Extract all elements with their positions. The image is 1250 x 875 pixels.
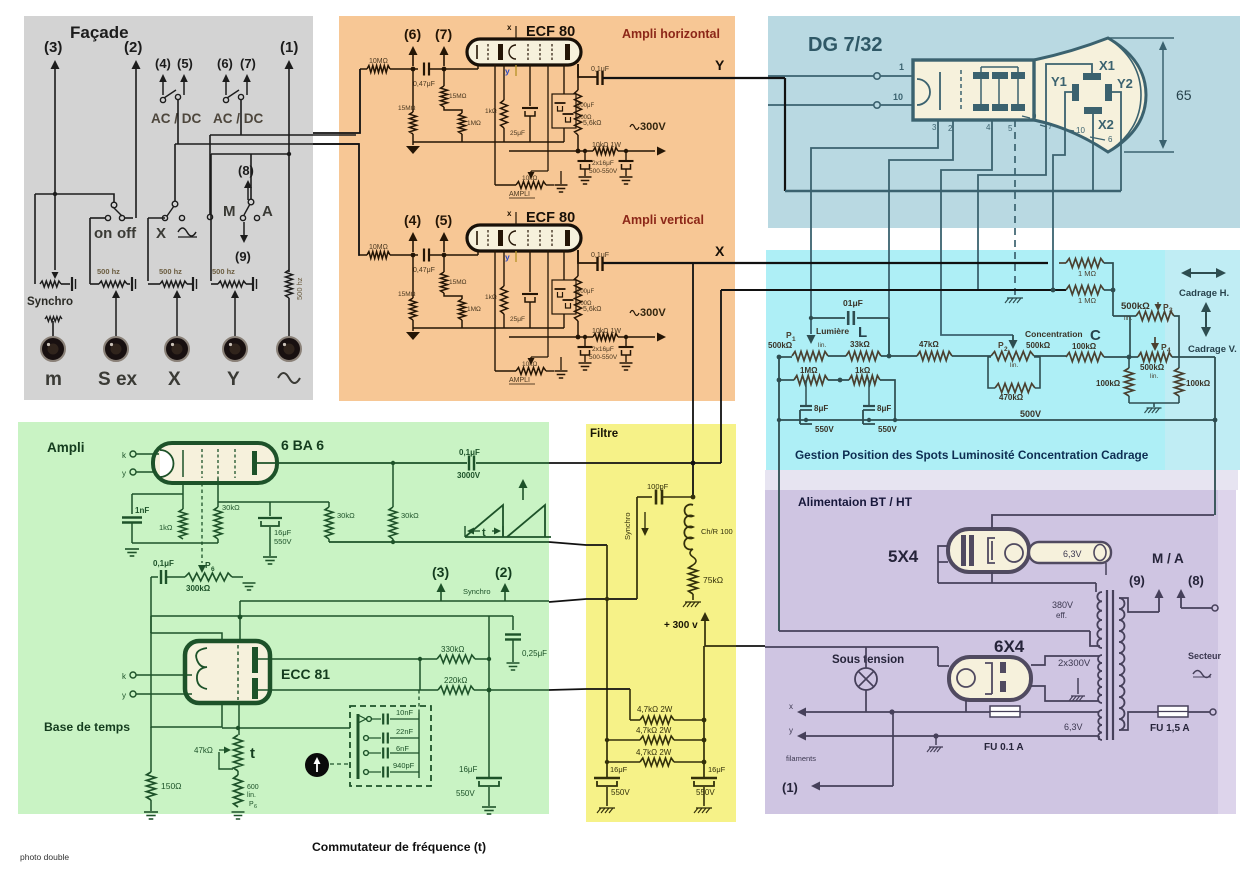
svg-text:Y: Y <box>227 369 240 390</box>
svg-text:AMPLI: AMPLI <box>509 191 530 198</box>
svg-text:(1): (1) <box>782 780 798 795</box>
wire on/off pivot riser and bar <box>35 194 114 203</box>
arrow out a Ampli vertical <box>412 241 414 252</box>
wire AC/DC 1 to X input line <box>177 100 179 144</box>
wire pin3 jog <box>811 120 938 334</box>
wire chain left end <box>780 356 792 358</box>
junction HT corner <box>1213 514 1215 516</box>
resistor 4,7k no.2 <box>607 739 640 741</box>
svg-text:M: M <box>223 203 236 220</box>
alimentation pale right strip <box>1218 490 1236 814</box>
svg-text:6X4: 6X4 <box>994 637 1025 656</box>
resistor 15M no.2 Ampli horizontal <box>443 69 445 86</box>
svg-text:Filtre: Filtre <box>590 428 618 440</box>
wire ECC81 grid riser <box>239 601 241 641</box>
wire bus synchro <box>240 600 549 602</box>
wiper arrow ampli Ampli horizontal <box>530 171 532 172</box>
svg-text:Concentration: Concentration <box>1025 329 1083 339</box>
svg-text:Secteur: Secteur <box>1188 651 1222 661</box>
wire coil to resistor <box>690 549 696 565</box>
lamp sous tension <box>855 668 877 690</box>
heater capsule 6,3V top <box>1029 542 1111 563</box>
resistor 15M no.1 Ampli vertical <box>412 255 414 298</box>
wire cathode rail left <box>132 542 218 544</box>
wire Y riser <box>784 78 786 191</box>
junction P4 left <box>1127 355 1132 360</box>
wire green synchro into filtre <box>549 599 637 602</box>
gestion panel pale right strip <box>1165 250 1240 470</box>
svg-text:100kΩ: 100kΩ <box>1096 379 1121 388</box>
potentiometer 10k AMPLI Ampli vertical <box>516 368 546 375</box>
bus lower Ampli vertical <box>413 327 564 329</box>
winding 2x300V <box>1098 655 1102 703</box>
resistor 30k no.1 <box>214 507 222 539</box>
svg-text:75kΩ: 75kΩ <box>703 575 723 585</box>
wiper arrow P3 <box>1157 302 1159 304</box>
box wiper loop <box>219 752 233 769</box>
lavender gap strip above alimentation <box>765 470 1238 490</box>
capacitor 16uF b Ampli horizontal <box>625 151 627 160</box>
wire HT to 5X4 anode <box>992 515 1214 529</box>
svg-text:1: 1 <box>792 336 796 343</box>
wire node 3 junction on bar <box>53 192 57 196</box>
ground 75k <box>685 601 701 603</box>
svg-text:m: m <box>45 369 62 390</box>
junction 6 Ampli horizontal <box>411 67 416 72</box>
svg-text:0,47μF: 0,47μF <box>413 81 435 88</box>
wiper arrow concentration <box>1012 335 1014 340</box>
svg-text:Y: Y <box>715 57 725 73</box>
wire Y bus <box>785 190 1121 192</box>
svg-text:550V: 550V <box>815 425 834 434</box>
socket S ex <box>104 337 128 361</box>
tube 6X4 envelope <box>949 657 1031 700</box>
junction y ground <box>933 733 938 738</box>
ground wiper line Ampli vertical <box>560 357 562 370</box>
wiper arrow P4 <box>1154 337 1156 343</box>
tube ECC81 envelope <box>185 641 270 703</box>
alimentation panel background <box>765 490 1218 814</box>
capacitor 1nF <box>131 494 133 514</box>
wire Y output <box>578 64 597 77</box>
switch X/sine lever <box>167 206 174 216</box>
svg-text:100pF: 100pF <box>647 482 669 491</box>
wire line y290 <box>721 289 1066 291</box>
wire wiper feedback Ampli horizontal <box>531 170 548 172</box>
resistor 330k <box>437 655 475 663</box>
switch on/off lever <box>113 207 122 216</box>
svg-text:L: L <box>858 324 867 341</box>
wire pin5 dashed drop <box>1014 120 1016 296</box>
wire X2 lead <box>1092 114 1094 191</box>
svg-text:500kΩ: 500kΩ <box>1121 301 1150 312</box>
svg-text:on: on <box>94 225 112 242</box>
svg-text:4,7kΩ 2W: 4,7kΩ 2W <box>636 726 672 735</box>
deflection plate Y1 <box>1072 84 1079 101</box>
svg-text:0,1μF: 0,1μF <box>153 559 174 568</box>
box 200uF 200ohm Ampli vertical <box>552 280 576 314</box>
box 200uF 200ohm Ampli horizontal <box>552 94 576 128</box>
capacitor 100pF <box>637 496 652 498</box>
svg-text:Cadrage H.: Cadrage H. <box>1179 288 1229 299</box>
tube ECF 80 envelope Ampli vertical <box>467 225 581 251</box>
wire wiper feedback Ampli vertical <box>531 356 548 358</box>
wire screen rail <box>218 501 329 503</box>
capacitor 8uF no.2 <box>868 380 870 406</box>
wire ECC81 grid tail <box>238 703 240 735</box>
wire 100k to P4 <box>1104 356 1138 358</box>
svg-text:(4): (4) <box>155 56 171 71</box>
svg-text:330kΩ: 330kΩ <box>441 645 464 654</box>
svg-text:4: 4 <box>986 123 991 132</box>
svg-text:(2): (2) <box>495 564 512 580</box>
transformer core <box>1106 590 1108 740</box>
tube 6BA6 electrodes <box>160 450 174 477</box>
svg-text:500 hz: 500 hz <box>97 267 120 276</box>
arrow (8) purple <box>1180 598 1182 608</box>
capacitor 0,1uF output Ampli horizontal <box>596 71 598 85</box>
potentiometer X <box>148 283 160 285</box>
wire lamp bottom <box>865 690 867 712</box>
ground cap right <box>696 807 712 809</box>
tick pin 9 <box>1022 116 1030 118</box>
switch X/sine pivot <box>172 201 178 207</box>
junction 5,6k bus Ampli vertical <box>576 335 581 340</box>
svg-text:9: 9 <box>1032 112 1037 121</box>
capacitor 0,1uF output Ampli vertical <box>596 257 598 271</box>
arrow (2) synchro <box>504 592 506 601</box>
arrow output 2 <box>132 60 141 69</box>
svg-text:2: 2 <box>1004 346 1008 353</box>
sine label socket <box>278 373 300 383</box>
svg-text:300kΩ: 300kΩ <box>186 584 211 593</box>
arrow contact 4 <box>162 82 164 95</box>
arrow +300v <box>704 621 706 632</box>
resistor 5,6k Ampli vertical <box>577 250 579 276</box>
sawtooth waveform <box>465 505 545 537</box>
arrow cadrage H <box>1191 272 1205 274</box>
arrow synchro down <box>644 512 646 528</box>
tube ECF 80 envelope Ampli horizontal <box>467 39 581 65</box>
svg-text:(7): (7) <box>240 56 256 71</box>
ground P4 legs <box>1147 407 1162 409</box>
svg-text:500-550V: 500-550V <box>589 354 618 361</box>
junction commutateur line <box>236 726 240 730</box>
wiper arrow S ex <box>115 298 117 336</box>
svg-text:y: y <box>505 66 510 76</box>
svg-text:DG 7/32: DG 7/32 <box>808 34 882 56</box>
arrow (1) <box>811 782 820 791</box>
bus HT Ampli vertical <box>509 336 593 338</box>
potentiometer 600 lin <box>234 775 243 807</box>
deflection plate X2 <box>1084 107 1102 114</box>
wire pin2 jog <box>889 120 953 355</box>
svg-text:600: 600 <box>247 784 259 791</box>
wire pin to ampli pot Ampli vertical <box>494 250 496 371</box>
CRT cathode <box>917 79 930 105</box>
svg-text:10: 10 <box>893 92 903 102</box>
svg-text:(8): (8) <box>1188 573 1204 588</box>
winding primary <box>1119 598 1125 730</box>
sine secteur <box>1193 671 1211 678</box>
junction X sawtooth <box>691 461 696 466</box>
svg-text:(5): (5) <box>435 212 452 228</box>
resistor 100k left leg <box>1128 357 1130 368</box>
wire Y1 lead <box>1053 92 1072 290</box>
svg-text:500-550V: 500-550V <box>589 168 618 175</box>
svg-text:22nF: 22nF <box>396 727 414 736</box>
svg-text:940pF: 940pF <box>393 761 415 770</box>
svg-text:x: x <box>789 702 793 711</box>
svg-text:t: t <box>250 745 255 762</box>
capacitor 25uF Ampli horizontal <box>529 64 531 106</box>
tube ECF 80 electrodes Ampli vertical <box>476 231 478 245</box>
wire (8) to terminal <box>1181 607 1212 609</box>
capacitor 16uF filtre right <box>691 777 717 779</box>
potentiometer P1 500k <box>792 352 828 361</box>
wire step down to chain <box>629 689 631 720</box>
switch M/A pivot <box>248 199 254 205</box>
wire plate b <box>258 689 438 691</box>
capacitor 16uF 550V btm <box>476 777 502 779</box>
svg-text:470kΩ: 470kΩ <box>999 393 1024 402</box>
wire left bar to synchro pot <box>34 194 36 284</box>
ground 150 <box>144 811 158 813</box>
svg-text:1kΩ: 1kΩ <box>159 523 173 532</box>
junction cap b Ampli horizontal <box>624 149 628 153</box>
resistor 1M no.2 <box>1066 286 1104 295</box>
CRT grid bar <box>939 72 941 110</box>
sine glyph throw <box>178 228 196 236</box>
svg-text:25μF: 25μF <box>510 316 525 323</box>
junction cap b Ampli vertical <box>624 335 628 339</box>
ground input Ampli horizontal <box>406 146 420 154</box>
svg-text:16μF: 16μF <box>610 765 628 774</box>
resistor 30k no.3 <box>392 463 394 507</box>
svg-text:(9): (9) <box>1129 573 1145 588</box>
junction chain3 <box>702 760 707 765</box>
svg-text:AMPLI: AMPLI <box>509 377 530 384</box>
svg-text:2x300V: 2x300V <box>1058 658 1091 669</box>
junction 500V left <box>777 418 781 422</box>
svg-text:S ex: S ex <box>98 369 138 390</box>
svg-text:AC / DC: AC / DC <box>213 111 264 126</box>
svg-text:10: 10 <box>1076 126 1085 135</box>
svg-text:lin.: lin. <box>818 342 827 349</box>
switch on/off contacts <box>105 215 110 220</box>
CRT grid dashed <box>960 70 962 112</box>
svg-text:Ampli vertical: Ampli vertical <box>622 213 704 227</box>
wire screen pin drop <box>217 478 219 507</box>
svg-text:FU 0.1 A: FU 0.1 A <box>984 742 1024 753</box>
switch AC/DC no.1 contacts <box>160 97 165 102</box>
svg-text:Synchro: Synchro <box>463 587 491 596</box>
arrow HT feed Ampli horizontal <box>618 150 655 152</box>
ground wiper line Ampli horizontal <box>560 171 562 184</box>
tube 6BA6 envelope <box>153 443 277 483</box>
arrow contact 7 <box>246 82 248 95</box>
svg-text:y: y <box>122 691 126 700</box>
tube 6X4 electrodes <box>957 669 975 687</box>
svg-text:550V: 550V <box>878 425 897 434</box>
wire x line <box>803 711 990 713</box>
wire left HV loop <box>779 630 1090 632</box>
svg-text:47kΩ: 47kΩ <box>194 746 213 755</box>
wire pin to ampli pot Ampli horizontal <box>494 64 496 185</box>
wire left vertical to purple <box>778 357 780 631</box>
svg-text:500kΩ: 500kΩ <box>1026 341 1051 350</box>
svg-text:1kΩ: 1kΩ <box>855 366 871 375</box>
svg-text:Ch/R 100: Ch/R 100 <box>701 527 733 536</box>
wire X-switch to X pot <box>148 217 165 219</box>
wire 1k right drop <box>880 380 895 420</box>
svg-text:5X4: 5X4 <box>888 547 919 566</box>
ground 0,25uF <box>507 662 520 664</box>
dimension bottom line <box>1124 151 1174 153</box>
wire 330k 220k tie <box>419 659 421 690</box>
wire Y pot riser <box>210 154 212 281</box>
wire pin to resistor 1k Ampli vertical <box>503 250 505 286</box>
junction 30k3 plate <box>391 461 395 465</box>
fuse FU 1,5A <box>1158 706 1188 717</box>
capacitor 940pF <box>382 767 384 778</box>
arrow out b Ampli horizontal <box>443 55 445 66</box>
wire cap rail right drop <box>888 318 890 355</box>
gestion spots panel background <box>766 250 1240 470</box>
svg-text:10MΩ: 10MΩ <box>369 58 388 65</box>
wire fuse to secteur terminal <box>1188 711 1210 713</box>
resistor 150 <box>147 772 156 800</box>
svg-text:15MΩ: 15MΩ <box>398 105 416 112</box>
svg-text:3000V: 3000V <box>457 471 481 480</box>
svg-text:500 hz: 500 hz <box>159 267 182 276</box>
svg-text:Lumière: Lumière <box>816 326 849 336</box>
svg-text:(9): (9) <box>235 249 251 264</box>
svg-text:3: 3 <box>1169 307 1173 314</box>
svg-text:A: A <box>262 203 273 220</box>
wire P3 right <box>1174 316 1179 357</box>
svg-text:3: 3 <box>932 123 937 132</box>
loop 470k <box>988 357 995 388</box>
svg-text:550V: 550V <box>696 788 715 797</box>
ground P6 <box>243 582 256 584</box>
svg-text:Y1: Y1 <box>1051 74 1067 89</box>
svg-text:Cadrage V.: Cadrage V. <box>1188 344 1237 355</box>
resistor 470k <box>995 384 1035 393</box>
socket sine <box>277 337 301 361</box>
arrow contact 6 <box>225 82 227 95</box>
svg-text:AC / DC: AC / DC <box>151 111 202 126</box>
svg-text:t: t <box>482 527 486 539</box>
deflection plate Y2 <box>1105 84 1112 101</box>
svg-text:65: 65 <box>1176 87 1192 103</box>
arrow out a Ampli horizontal <box>412 55 414 66</box>
dimension top line <box>1108 37 1174 39</box>
resistor 100k right leg <box>1178 357 1180 368</box>
arrow (9) purple <box>1158 598 1160 612</box>
ground cap left <box>599 807 615 809</box>
wire grid2 dashed drop <box>201 483 203 563</box>
junction 1M2 tie <box>1111 288 1116 293</box>
resistor 1M grid Ampli vertical <box>459 299 466 320</box>
svg-text:lin.: lin. <box>1124 315 1133 322</box>
terminal bar Y pot <box>252 277 254 291</box>
wire M/A bar y=154 <box>211 153 289 155</box>
inductor Ch/R 100 <box>684 504 693 549</box>
potentiometer P2 500k <box>991 352 1034 361</box>
tick pin 10b <box>1062 129 1074 131</box>
resistor 100k chain <box>1066 353 1104 362</box>
capacitor 8uF no.1 <box>805 380 807 406</box>
svg-text:30kΩ: 30kΩ <box>401 511 419 520</box>
wire X-switch riser <box>174 144 176 201</box>
wire y line <box>803 735 1099 737</box>
svg-text:y: y <box>789 726 793 735</box>
wire primary bottom to fuse <box>1119 712 1160 730</box>
svg-text:(3): (3) <box>432 564 449 580</box>
capacitor 16uF filtre left <box>594 777 620 779</box>
wire pin to resistor 1k Ampli horizontal <box>503 64 505 100</box>
rotary knob <box>305 753 329 777</box>
wire 5X4 cathode pins <box>938 546 948 583</box>
wire box top tie <box>150 616 152 633</box>
resistor 220k <box>438 686 474 694</box>
wire HT vertical to purple <box>1214 357 1216 515</box>
resistor 1M row2 <box>794 376 828 385</box>
ground center tap <box>1071 695 1085 697</box>
wire filtre left step <box>606 545 608 777</box>
svg-text:1 MΩ: 1 MΩ <box>1078 296 1097 305</box>
svg-text:x: x <box>507 209 512 218</box>
svg-text:Sous tension: Sous tension <box>832 654 904 666</box>
svg-text:8μF: 8μF <box>877 404 891 413</box>
svg-text:15MΩ: 15MΩ <box>449 279 467 286</box>
svg-text:X1: X1 <box>1099 58 1115 73</box>
junction 7 Ampli vertical <box>442 253 447 258</box>
svg-text:Alimentaion BT / HT: Alimentaion BT / HT <box>798 495 913 509</box>
capacitor 0,1uF P6 <box>151 576 158 578</box>
wire +300 into purple <box>736 645 765 647</box>
contact under stub <box>207 214 212 219</box>
svg-text:2x16μF: 2x16μF <box>592 346 614 353</box>
wire 6X4 top pin <box>937 647 939 666</box>
CRT anode plates <box>973 72 989 79</box>
wire 6BA6 plate line <box>257 462 467 464</box>
svg-text:(1): (1) <box>280 39 298 56</box>
wiper arrowhead onto synchro pot <box>52 272 59 279</box>
svg-text:30kΩ: 30kΩ <box>337 511 355 520</box>
ground 16uF green <box>263 556 277 558</box>
capacitor 16uF 550V green <box>269 502 271 516</box>
svg-text:photo double: photo double <box>20 852 69 862</box>
wire to commutateur <box>222 727 350 729</box>
wire to ampli horizontal y=135 <box>210 134 356 136</box>
svg-text:(6): (6) <box>217 56 233 71</box>
svg-text:5,6kΩ: 5,6kΩ <box>583 120 601 127</box>
facade panel background <box>24 16 313 400</box>
potentiometer t <box>234 735 243 771</box>
tube 5X4 envelope <box>948 529 1029 572</box>
ampli horizontal-vertical panel background <box>339 16 735 401</box>
junction 7 Ampli horizontal <box>442 67 447 72</box>
arrow x <box>797 708 806 717</box>
potentiometer Y <box>211 283 218 285</box>
svg-text:7: 7 <box>1048 122 1053 131</box>
wire fuse to winding <box>1020 711 1099 713</box>
resistor 30k no.2 <box>328 502 330 507</box>
wire lamp top <box>865 647 867 668</box>
capacitor 0,47uF Ampli horizontal <box>423 63 425 76</box>
